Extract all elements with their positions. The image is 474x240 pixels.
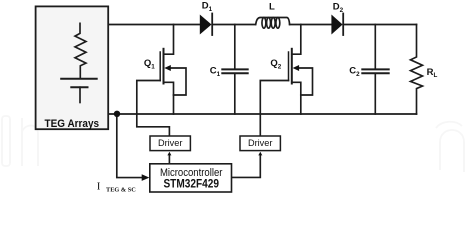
svg-text:Driver: Driver — [158, 138, 183, 148]
svg-text:STM32F429: STM32F429 — [163, 176, 219, 190]
svg-text:Driver: Driver — [248, 138, 273, 148]
svg-text:I: I — [97, 180, 101, 192]
svg-text:TEG Arrays: TEG Arrays — [45, 118, 100, 130]
svg-text:TEG & SC: TEG & SC — [106, 187, 136, 194]
svg-text:L: L — [269, 2, 275, 13]
